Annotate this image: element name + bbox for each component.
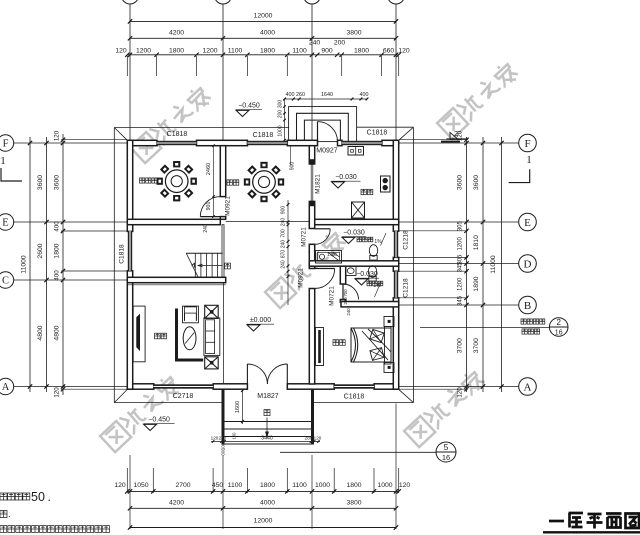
svg-text:−0.030: −0.030	[335, 174, 357, 181]
svg-text:1100: 1100	[292, 48, 307, 55]
watermark 图纸之家 top-left	[130, 84, 213, 163]
svg-text:4000: 4000	[260, 500, 275, 507]
svg-text:E: E	[2, 218, 8, 229]
door M0927 kitchen rear leaf+arc	[317, 122, 319, 142]
svg-text:870: 870	[281, 250, 287, 259]
svg-text:1800: 1800	[346, 482, 361, 489]
watermark 图纸之家 bottom-right	[404, 368, 487, 447]
kitchen side dim 900	[290, 146, 292, 166]
svg-text:100: 100	[232, 432, 237, 440]
svg-text:240: 240	[346, 308, 351, 316]
coffee table oval	[183, 327, 196, 350]
right dim chain detailed	[466, 137, 468, 392]
living room TV cabinet	[133, 306, 145, 362]
right grid extension lines F E D B A	[399, 142, 519, 144]
left window edge extension lines	[61, 230, 127, 232]
interior wall X3b corridor/bath2	[340, 266, 345, 284]
top dimension row detailed	[127, 54, 398, 56]
title underline	[543, 531, 640, 533]
title 一层平面图	[549, 513, 639, 529]
svg-text:305: 305	[458, 221, 464, 232]
text 下	[264, 410, 270, 416]
svg-text:1000: 1000	[315, 482, 330, 489]
svg-text:M0921: M0921	[225, 196, 232, 216]
svg-text:120: 120	[115, 48, 127, 55]
svg-text:3700: 3700	[457, 338, 464, 353]
svg-text:−0.450: −0.450	[148, 417, 170, 424]
svg-text:400: 400	[360, 92, 369, 98]
svg-text:450: 450	[212, 482, 224, 489]
right window edge extension lines	[399, 230, 468, 232]
svg-text:200: 200	[278, 110, 284, 119]
svg-text:C2718: C2718	[173, 393, 194, 400]
svg-text:400: 400	[54, 270, 61, 281]
svg-text:1100: 1100	[228, 48, 243, 55]
svg-text:900: 900	[206, 202, 212, 211]
svg-text:M1827: M1827	[257, 393, 279, 400]
bottom dimension row 4200/4000/3800	[130, 507, 396, 509]
svg-text:1000: 1000	[278, 125, 284, 136]
svg-text:−0.450: −0.450	[238, 103, 260, 110]
interior wall C (stair bottom)	[127, 277, 225, 282]
kitchen stove 2 burners	[381, 176, 391, 192]
svg-text:120: 120	[314, 435, 322, 440]
door M0921b hall-corridor leaf+arc	[315, 268, 335, 270]
svg-text:240: 240	[281, 240, 287, 249]
svg-text:3440: 3440	[261, 435, 273, 441]
svg-text:300: 300	[278, 100, 284, 109]
svg-text:1200: 1200	[136, 48, 151, 55]
svg-text:11000: 11000	[490, 255, 497, 274]
svg-text:240: 240	[343, 297, 348, 305]
note line 3 窗户大小根据实际施工确定	[0, 526, 7, 533]
svg-text:120: 120	[398, 48, 410, 55]
svg-text:M0721: M0721	[301, 227, 308, 247]
top grid bubbles (cropped)	[122, 0, 139, 4]
bottom dimension row overall 12000	[130, 527, 396, 529]
svg-text:1: 1	[526, 154, 532, 166]
svg-text:1640: 1640	[321, 92, 333, 98]
svg-text:260: 260	[296, 92, 305, 98]
exterior wall bottom (grid A)	[127, 384, 154, 389]
svg-text:120: 120	[114, 482, 126, 489]
roof overhang corner diagonals	[114, 128, 127, 141]
bath1 toilet	[369, 245, 377, 257]
svg-text:3600: 3600	[473, 175, 480, 190]
entry porch side wall left	[222, 389, 225, 444]
window C1818 top-middle	[247, 141, 287, 145]
svg-text:3800: 3800	[346, 29, 361, 36]
right dim chain mid	[482, 137, 484, 392]
svg-text:900: 900	[290, 162, 296, 171]
left dim chain detailed	[62, 134, 64, 395]
svg-text:3600: 3600	[37, 175, 44, 190]
bottom dimension row detailed	[127, 490, 398, 492]
svg-text:1: 1	[0, 155, 6, 167]
interior wall X2 between rooms	[220, 146, 225, 197]
svg-text:240: 240	[309, 40, 321, 47]
text 做木大样	[521, 319, 526, 324]
bedroom bed	[351, 328, 391, 362]
room label 卧室	[333, 340, 339, 346]
svg-text:E: E	[524, 217, 531, 229]
svg-text:C1818: C1818	[367, 130, 388, 137]
window C2718 living room	[153, 384, 213, 388]
svg-text:660: 660	[383, 48, 395, 55]
svg-text:1050: 1050	[133, 482, 148, 489]
top dimension row 4200/4000/3800	[130, 37, 396, 39]
window C1218 right lower	[394, 271, 398, 298]
room label 卫生间 bath2	[367, 281, 372, 286]
svg-text:2460: 2460	[206, 163, 212, 175]
svg-text:3600: 3600	[54, 175, 61, 190]
note line 1 的楼地面低50	[0, 493, 7, 500]
kitchen porch steps	[289, 107, 357, 142]
text 详见图	[522, 329, 527, 334]
entry steps micro dims	[211, 441, 320, 443]
staircase	[186, 252, 223, 254]
svg-text:A: A	[2, 382, 10, 393]
svg-text:50: 50	[31, 490, 45, 504]
three-seat sofa	[204, 318, 220, 355]
top dimension row overall 12000	[130, 20, 396, 22]
svg-text:240: 240	[281, 218, 287, 227]
wardrobe	[316, 328, 324, 366]
svg-text:F: F	[3, 139, 9, 150]
svg-text:C1218: C1218	[403, 278, 410, 298]
svg-text:12000: 12000	[254, 517, 273, 524]
stair side wall below E on grid2	[222, 225, 224, 281]
kitchen sink X-box	[352, 202, 365, 218]
svg-text:900: 900	[321, 48, 333, 55]
hall interior dim chain	[287, 200, 289, 305]
main entrance M1827 double door	[246, 364, 248, 384]
right grid bubbles F E D B A	[519, 134, 537, 152]
bath2 washbasin	[346, 266, 357, 276]
svg-text:C1818: C1818	[167, 131, 188, 138]
svg-text:345: 345	[458, 295, 464, 306]
stair direction arrow	[198, 265, 222, 267]
room label 卫生间 bath1	[357, 237, 362, 242]
exterior wall right (grid 4)	[393, 140, 398, 231]
left dim chain overall 11000	[29, 137, 31, 392]
svg-text:240: 240	[281, 260, 287, 269]
svg-text:300: 300	[221, 448, 226, 456]
hall-living boundary line	[223, 283, 225, 384]
svg-text:1890: 1890	[473, 276, 480, 291]
watermark 图纸之家 center	[265, 229, 348, 308]
left grid bubbles F E C A	[0, 135, 14, 151]
text 上 (up)	[225, 263, 231, 269]
svg-text:−0.030: −0.030	[356, 271, 378, 278]
vertical grid axis lines 1-4	[129, 4, 131, 142]
svg-text:1800: 1800	[260, 482, 275, 489]
window C1818 left hall	[128, 231, 132, 271]
svg-text:16: 16	[442, 453, 450, 462]
svg-text:240: 240	[203, 224, 209, 233]
svg-text:1200: 1200	[202, 48, 217, 55]
svg-text:3800: 3800	[346, 500, 361, 507]
window C1818 kitchen	[342, 141, 382, 145]
svg-text:345: 345	[458, 262, 464, 273]
svg-text:C: C	[2, 276, 9, 287]
svg-text:1800: 1800	[354, 48, 369, 55]
roof overhang outline	[113, 128, 115, 403]
svg-text:1200: 1200	[458, 236, 464, 250]
left grid extension lines F E C A	[14, 142, 127, 144]
svg-text:1200: 1200	[458, 277, 464, 291]
svg-text:120: 120	[54, 387, 61, 398]
door M0721a hall-bath1 leaf+arc	[315, 228, 331, 230]
svg-text:2700: 2700	[175, 482, 190, 489]
dim 2460 left of wall X2	[213, 146, 215, 197]
watermark 图纸之家 top-right	[437, 60, 520, 139]
svg-text:D: D	[524, 258, 532, 270]
interior wall D horizontal (bathroom divider)	[309, 261, 398, 266]
top extension lines below detailed row	[126, 56, 128, 76]
svg-text:M0927: M0927	[316, 148, 338, 155]
svg-text:1800: 1800	[169, 48, 184, 55]
svg-text:5: 5	[444, 442, 449, 452]
svg-text:4800: 4800	[54, 325, 61, 340]
note line 2 管	[0, 511, 7, 518]
exterior wall top (grid F)	[127, 140, 157, 145]
kitchen porch dim row	[284, 98, 367, 100]
svg-text:M0921: M0921	[298, 268, 305, 288]
svg-text:4800: 4800	[37, 325, 44, 340]
svg-text:400: 400	[286, 92, 295, 98]
dim 1600 porch depth	[242, 390, 244, 424]
svg-text:12000: 12000	[254, 13, 273, 20]
svg-text:16: 16	[555, 330, 563, 337]
interior wall E horizontal	[127, 219, 220, 224]
svg-text:M0721: M0721	[329, 286, 336, 306]
svg-text:C1218: C1218	[403, 230, 410, 250]
svg-text:A: A	[524, 381, 532, 393]
room label 娱乐室	[140, 178, 145, 183]
entry porch side wall right	[311, 389, 314, 444]
svg-text:1600: 1600	[235, 401, 241, 413]
svg-text:280: 280	[305, 435, 313, 440]
svg-text:3600: 3600	[457, 175, 464, 190]
svg-text:±0.000: ±0.000	[250, 317, 271, 324]
entry steps lines	[225, 421, 312, 423]
svg-text:120: 120	[399, 482, 411, 489]
svg-text:3700: 3700	[473, 338, 480, 353]
svg-text:1800: 1800	[260, 48, 275, 55]
svg-text:1000: 1000	[377, 482, 392, 489]
svg-text:120: 120	[211, 435, 219, 440]
room label 厨房	[361, 189, 366, 194]
right dim chain overall 11000	[501, 137, 503, 392]
dim 900 door M0921	[213, 197, 215, 217]
svg-text:.: .	[48, 490, 51, 504]
svg-text:2: 2	[556, 318, 561, 327]
svg-text:280: 280	[219, 435, 227, 440]
round table room2 (dining)	[253, 171, 276, 194]
svg-text:1810: 1810	[473, 235, 480, 250]
svg-text:.: .	[8, 509, 11, 519]
door M0721b corridor-bath2 leaf+arc	[342, 284, 344, 300]
kitchen counter with sink top	[348, 147, 364, 156]
exterior wall left (grid 1)	[127, 140, 132, 231]
svg-text:1%: 1%	[373, 283, 381, 289]
bath1 shower tub	[316, 251, 342, 264]
door opening M1821 dining-kitchen	[310, 159, 314, 164]
corner plant stand bottom	[205, 357, 219, 369]
left dim chain mid	[46, 137, 48, 392]
room label 客厅	[155, 333, 161, 339]
door M0921 room1/room2 leaf+arc	[200, 216, 220, 218]
room label 餐厅	[227, 180, 232, 185]
svg-text:900: 900	[281, 206, 287, 215]
svg-text:2600: 2600	[37, 243, 44, 258]
window C1218 right upper	[394, 231, 398, 258]
detail bubble 5/16 with leader	[280, 451, 436, 453]
svg-text:4200: 4200	[169, 500, 184, 507]
svg-text:700: 700	[343, 289, 348, 297]
svg-text:4000: 4000	[260, 29, 275, 36]
armchair	[183, 306, 199, 323]
svg-text:4200: 4200	[169, 29, 184, 36]
svg-text:C1818: C1818	[119, 244, 126, 264]
round table room1 (entertainment)	[165, 170, 188, 193]
kitchen porch side dims 300/200/1000	[284, 99, 286, 140]
watermark 图纸之家 bottom-left	[100, 373, 183, 452]
bath2 toilet	[368, 266, 376, 278]
bottom extension lines	[129, 455, 131, 529]
svg-text:400: 400	[54, 221, 61, 232]
svg-text:1100: 1100	[292, 482, 307, 489]
svg-text:120: 120	[54, 130, 61, 141]
svg-text:C1818: C1818	[253, 132, 274, 139]
svg-text:C1818: C1818	[344, 394, 365, 401]
nightstand top	[384, 317, 394, 327]
window C1818 bedroom	[334, 384, 374, 388]
svg-text:−0.030: −0.030	[343, 230, 365, 237]
corner plant stand top	[205, 305, 219, 318]
svg-text:M1821: M1821	[315, 174, 322, 194]
sofa group frame	[177, 309, 204, 361]
svg-text:1800: 1800	[54, 243, 61, 258]
svg-text:F: F	[524, 138, 530, 150]
svg-text:200: 200	[334, 40, 346, 47]
detail bubble 2/16 with leader	[420, 327, 549, 329]
interior wall X3 vertical	[309, 146, 314, 164]
interior wall B horizontal (bedroom top)	[341, 302, 399, 307]
svg-text:11000: 11000	[21, 255, 28, 274]
hall-dining boundary line	[226, 221, 310, 223]
svg-text:B: B	[524, 300, 531, 312]
svg-text:1100: 1100	[228, 482, 243, 489]
svg-text:120: 120	[457, 387, 464, 398]
window C1818 top-left	[157, 141, 197, 145]
nightstand bottom	[384, 363, 394, 373]
svg-text:700: 700	[281, 229, 287, 238]
